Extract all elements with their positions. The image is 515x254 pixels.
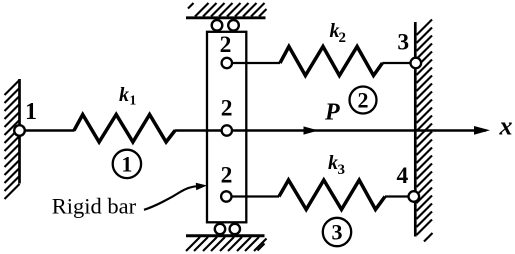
element number 2 circled	[350, 87, 377, 114]
spring k3 zigzag	[279, 180, 385, 210]
node 1 circle	[14, 125, 25, 136]
x axis arrowhead	[474, 126, 490, 135]
svg-text:Rigid bar: Rigid bar	[52, 193, 137, 218]
left wall hatching	[5, 80, 20, 199]
x-axis line inside bar	[207, 129, 246, 131]
node 3 circle	[411, 58, 422, 69]
rigid bar rectangle	[207, 32, 246, 223]
svg-text:k: k	[119, 84, 129, 106]
svg-text:P: P	[324, 100, 340, 126]
Rigid bar pointer arrowhead	[196, 183, 207, 191]
bottom roller right	[230, 224, 240, 234]
right wall hatching	[417, 20, 433, 242]
svg-text:3: 3	[332, 220, 343, 245]
floor support hatching	[186, 237, 267, 251]
svg-text:2: 2	[221, 95, 233, 121]
top roller left	[212, 20, 223, 31]
svg-text:k: k	[328, 152, 338, 174]
wire from spring k2 to node 3	[382, 62, 411, 64]
ceiling support hatching	[188, 3, 267, 17]
element number 1 circled	[113, 150, 141, 178]
ceiling support line	[186, 16, 266, 19]
svg-text:3: 3	[397, 30, 409, 56]
svg-text:1: 1	[121, 152, 132, 177]
svg-text:x: x	[499, 112, 513, 141]
floor support line	[186, 234, 265, 237]
svg-text:4: 4	[397, 163, 409, 189]
left wall line	[18, 79, 21, 184]
svg-text:2: 2	[221, 163, 233, 189]
node 2 bottom circle	[221, 191, 231, 201]
wire from spring k3 to node 4	[385, 195, 410, 197]
x-axis line from spring k1 through bar to x arrow	[175, 129, 487, 131]
svg-text:2: 2	[358, 88, 369, 113]
right wall line	[414, 22, 417, 237]
wire from bottom node 2 to spring k3	[232, 195, 280, 197]
node 4 circle	[409, 191, 420, 202]
wire from top node 2 to spring k2	[232, 62, 280, 64]
spring k1 zigzag	[74, 115, 175, 143]
svg-text:2: 2	[339, 30, 347, 46]
wire from node 1 to spring k1	[25, 129, 75, 131]
force P arrowhead	[304, 126, 319, 134]
svg-text:2: 2	[220, 32, 232, 58]
svg-text:3: 3	[338, 162, 346, 178]
Rigid bar pointer curve	[144, 186, 197, 210]
node 2 top circle	[222, 58, 232, 68]
bottom roller left	[215, 224, 225, 234]
top roller right	[228, 20, 239, 31]
svg-text:1: 1	[25, 99, 37, 125]
element number 3 circled	[323, 218, 351, 246]
svg-text:1: 1	[130, 93, 137, 108]
spring k2 zigzag	[280, 47, 382, 76]
node 2 middle circle	[222, 125, 232, 135]
